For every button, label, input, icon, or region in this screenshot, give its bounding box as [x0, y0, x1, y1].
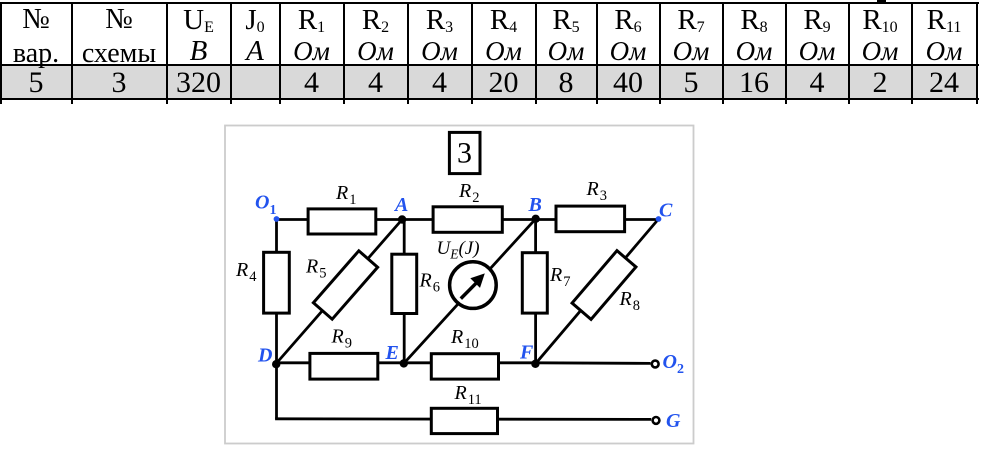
resistor R2 [433, 207, 502, 233]
svg-text:R2: R2 [458, 180, 479, 206]
node F dot [531, 360, 539, 368]
resistor R7 [522, 253, 547, 313]
wire O1-A [277, 218, 403, 221]
table header row line 2 [2, 36, 70, 67]
svg-text:G: G [666, 410, 681, 432]
table gray data row background [2, 66, 976, 98]
svg-text:R1: R1 [335, 182, 356, 208]
node D dot [272, 360, 280, 368]
resistor R10 [431, 354, 498, 379]
terminal O2 [652, 361, 659, 368]
svg-text:UE(J): UE(J) [437, 238, 480, 262]
svg-text:R11: R11 [454, 382, 482, 408]
resistor R1 [308, 209, 376, 234]
resistor R6 [392, 254, 417, 313]
table next-row border stubs [0, 100, 2, 104]
wire E-F [404, 361, 535, 364]
resistor R9 [310, 353, 378, 379]
svg-text:B: B [528, 194, 542, 216]
node C dot [656, 216, 662, 222]
terminal G [653, 417, 660, 424]
table borders [0, 2, 979, 4]
wire B-F [534, 220, 537, 364]
svg-text:A: A [393, 194, 408, 216]
wire A-D diagonal [276, 220, 402, 364]
resistor R8 [572, 251, 636, 320]
resistor R11 [431, 408, 497, 433]
node B dot [532, 215, 540, 223]
source U_E(J) circle [450, 262, 497, 309]
svg-text:F: F [519, 342, 534, 364]
node O1 dot [274, 216, 280, 222]
svg-text:R3: R3 [586, 178, 607, 204]
svg-text:R5: R5 [305, 256, 326, 282]
wire bottom rail to G [275, 417, 651, 420]
partial glyph above table [877, 0, 886, 2]
svg-text:R8: R8 [619, 288, 640, 314]
wire O1-D [275, 220, 278, 365]
svg-text:O1: O1 [255, 192, 276, 218]
svg-text:R9: R9 [331, 326, 352, 352]
wire D-E [277, 361, 405, 364]
svg-text:D: D [257, 345, 272, 367]
node A dot [398, 215, 406, 223]
wire D-bottom [275, 363, 278, 419]
svg-text:R4: R4 [235, 259, 257, 285]
svg-text:3: 3 [457, 137, 472, 170]
svg-text:E: E [385, 342, 399, 364]
wire F-O2 [536, 361, 651, 364]
resistor R4 [264, 252, 290, 313]
svg-text:O2: O2 [663, 351, 684, 377]
wire E-B diagonal [404, 219, 536, 364]
wire C-F diagonal [535, 219, 658, 364]
schematic frame [225, 126, 694, 444]
wire B-C [536, 218, 659, 221]
svg-text:R10: R10 [450, 326, 479, 352]
resistor R5 [313, 251, 377, 319]
node E dot [400, 359, 408, 367]
svg-text:R7: R7 [549, 264, 570, 290]
table data row [2, 66, 70, 98]
wire A-B [403, 218, 536, 221]
scheme number box 3 [449, 132, 480, 173]
svg-text:C: C [659, 200, 673, 222]
table header row line 1 [2, 5, 70, 36]
svg-text:R6: R6 [419, 270, 440, 296]
wire A-E [403, 220, 406, 364]
resistor R3 [556, 206, 625, 232]
